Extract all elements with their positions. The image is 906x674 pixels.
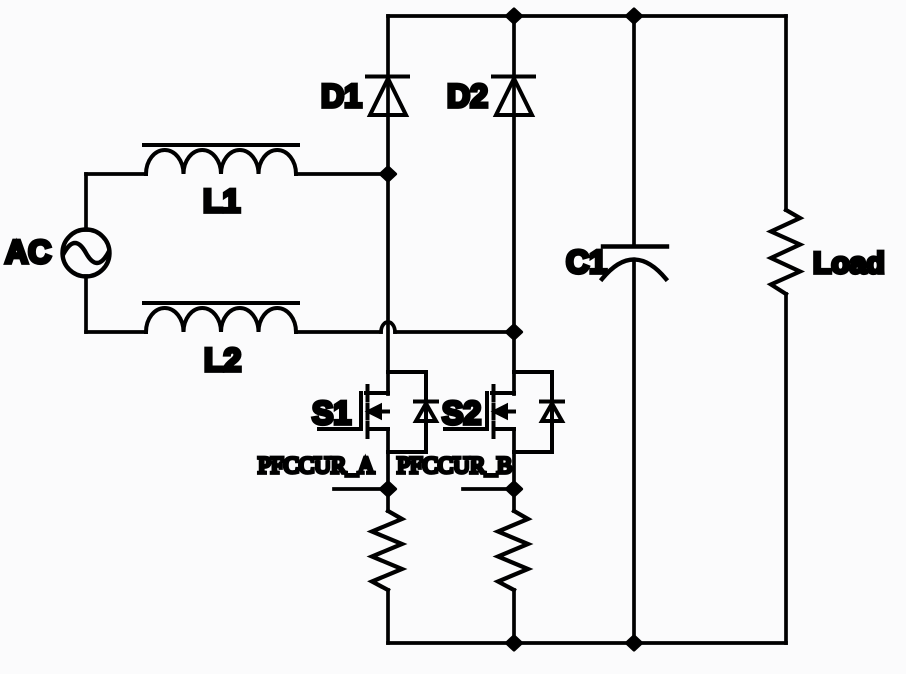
- wire L2 to hop: [296, 330, 381, 334]
- wire S2 source to sense resistor: [512, 429, 516, 511]
- wire AC left vertical bottom: [84, 276, 88, 332]
- diode D1: [367, 77, 408, 116]
- AC source V1: [63, 230, 110, 277]
- wire top rail: [388, 14, 786, 18]
- wire S1 source to sense resistor: [386, 429, 390, 511]
- wire sense resistor R_B bottom lead: [512, 590, 516, 643]
- svg-text:PFCCUR_B: PFCCUR_B: [397, 453, 512, 478]
- wire AC left vertical top: [84, 174, 88, 230]
- inductor L2: [144, 303, 298, 332]
- wire D1 branch vertical: [386, 16, 390, 394]
- node top rail D2: [507, 9, 522, 23]
- svg-text:AC: AC: [5, 234, 51, 270]
- svg-text:D2: D2: [447, 78, 488, 114]
- svg-text:D1: D1: [321, 78, 362, 114]
- wire Load bottom to rail: [784, 294, 788, 643]
- node top rail C1: [627, 9, 642, 23]
- node PFCCUR_A: [381, 482, 396, 496]
- transistor S2: [445, 386, 514, 437]
- svg-text:C1: C1: [566, 244, 607, 280]
- node L2-D2-S2: [507, 325, 522, 339]
- svg-text:L2: L2: [204, 342, 241, 378]
- wire AC to L1 row: [86, 172, 146, 176]
- wire C1 branch bottom: [632, 262, 636, 643]
- resistor R_A (sense): [372, 511, 402, 590]
- resistor R_B (sense): [498, 511, 528, 590]
- node PFCCUR_B: [507, 482, 522, 496]
- body diode of S1: [388, 372, 437, 452]
- node bottom rail C1: [627, 636, 642, 650]
- node L1-D1-S1: [381, 167, 396, 181]
- inductor L1: [144, 145, 298, 174]
- wire L1 to node A: [296, 172, 388, 176]
- wire bottom rail: [388, 641, 786, 645]
- wire hop over D1 branch: [381, 322, 395, 332]
- capacitor C1: [602, 247, 667, 280]
- svg-text:PFCCUR_A: PFCCUR_A: [258, 453, 375, 478]
- svg-text:S2: S2: [442, 395, 481, 431]
- diode D2: [493, 77, 534, 116]
- svg-text:L1: L1: [203, 183, 240, 219]
- wire right branch to Load top: [784, 16, 788, 210]
- svg-text:Load: Load: [813, 247, 885, 280]
- wire AC to L2 row: [86, 330, 146, 334]
- wire D2 branch vertical: [512, 16, 516, 394]
- wire sense resistor R_A bottom lead: [386, 590, 390, 643]
- resistor Load: [771, 210, 800, 294]
- wire PFCCUR_B stub: [463, 487, 514, 491]
- wire C1 branch top: [632, 16, 636, 246]
- wire hop to node B: [395, 330, 514, 334]
- wire PFCCUR_A stub: [334, 487, 388, 491]
- body diode of S2: [514, 372, 563, 452]
- svg-text:S1: S1: [312, 395, 351, 431]
- transistor S1: [319, 386, 388, 437]
- node bottom rail R_B: [507, 636, 522, 650]
